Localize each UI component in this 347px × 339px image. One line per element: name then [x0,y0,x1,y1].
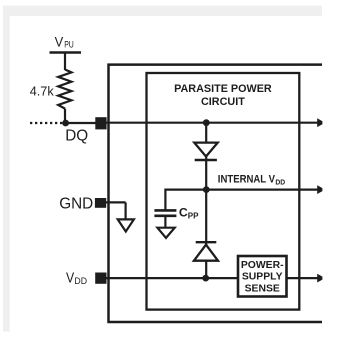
pin GND [59,195,106,212]
pin VDD [66,270,107,287]
wire VDD line [106,274,322,283]
svg-text:PARASITE POWER: PARASITE POWER [174,83,272,95]
wire diode2 branch [205,190,207,279]
resistor R_PU 4.7k [30,70,72,124]
power rail V_PU [50,34,82,70]
svg-text:CIRCUIT: CIRCUIT [201,96,245,108]
pin DQ [65,117,106,144]
svg-text:DD: DD [275,177,285,186]
wire diode branch [205,123,207,190]
svg-text:INTERNAL V: INTERNAL V [218,174,276,186]
diode D1 [194,143,217,160]
ground (GND pin) [106,202,134,231]
capacitor C_PP [154,189,199,229]
wire DQ line [106,118,322,127]
svg-text:V: V [66,270,75,286]
svg-text:POWER-: POWER- [241,260,284,271]
svg-text:GND: GND [59,195,93,212]
svg-text:SENSE: SENSE [245,283,280,294]
diode D2 [194,242,218,261]
node DQ / diode junction [203,119,210,126]
svg-text:4.7k: 4.7k [30,84,54,99]
svg-text:PU: PU [64,40,74,50]
chip outline (open on right) [109,65,323,322]
wire 1-wire bus (dotted stub) [30,122,63,124]
parasite power circuit box [147,73,300,310]
ground (C_PP) [157,228,174,238]
node internal vdd junction [203,186,210,193]
node VDD / diode junction [202,275,209,282]
svg-text:SUPPLY: SUPPLY [242,272,283,283]
net INTERNAL VDD [165,174,322,195]
node DQ junction [62,120,96,127]
power-supply sense block U1 [238,256,287,297]
svg-text:DD: DD [74,276,87,287]
svg-text:V: V [55,34,64,50]
svg-text:DQ: DQ [65,128,88,145]
